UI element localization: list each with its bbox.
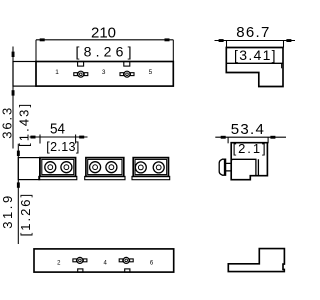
front view: left end section of strip	[13, 62, 36, 87]
front view: mounting slot above screw 2	[124, 62, 130, 67]
svg-text:36.3: 36.3	[0, 108, 15, 139]
svg-text:[1.26]: [1.26]	[18, 194, 33, 237]
dimension 36.3: top arrowhead	[12, 52, 15, 57]
dimension 31.9: vertical dimension line	[17, 144, 19, 244]
dimension 210: right arrowhead	[165, 38, 170, 41]
side view top-right: small step on right edge	[281, 63, 283, 68]
svg-text:[2.13]: [2.13]	[46, 140, 79, 154]
side view middle-right: foot/front face edges	[231, 159, 258, 175]
dimension 86.7: dimension line and extension lines	[215, 41, 296, 48]
bottom view: terminal screw S4	[119, 257, 133, 263]
front view: terminal screw S1	[74, 71, 88, 77]
dimension 210: left arrowhead	[40, 38, 45, 41]
side view middle-right: clamp screw head	[219, 159, 225, 175]
front view: terminal strip main body	[36, 62, 173, 87]
dimension 31.9: bottom arrowhead	[17, 182, 20, 187]
svg-text:31.9: 31.9	[0, 196, 15, 229]
top view: terminal block B3 with two clamp screws	[132, 158, 170, 180]
side view top-right: stepped end profile	[226, 48, 283, 87]
bottom view: mounting slot below screw 1	[78, 269, 83, 272]
dimension 86.7: right arrowhead	[286, 39, 291, 42]
dimension 86.7: left arrowhead	[219, 39, 224, 42]
dimension 54: dimension line and extension lines	[30, 135, 88, 144]
dimension 36.3: bottom arrowhead	[12, 90, 15, 95]
dimension 210: dimension line and extension lines	[36, 40, 173, 62]
svg-text:[1.43]: [1.43]	[17, 104, 32, 147]
svg-text:1: 1	[55, 69, 59, 76]
dimension 53.4: left arrowhead	[221, 136, 226, 139]
dimension 53.4: dimension line and extension lines	[215, 137, 286, 143]
svg-text:54: 54	[50, 121, 65, 138]
bottom view: terminal screw S3	[73, 257, 87, 263]
dimension 31.9: top arrowhead	[17, 151, 20, 156]
side profile bottom-right: stepped outline	[228, 249, 284, 272]
top view: left rail section	[18, 158, 39, 180]
front view: terminal screw S2	[120, 71, 134, 77]
side view middle-right: clamp screw shaft	[226, 163, 232, 171]
dimension 36.3: vertical dimension line	[12, 47, 14, 149]
svg-text:53.4: 53.4	[231, 121, 264, 138]
side view top-right: internal edge	[226, 62, 283, 64]
svg-text:5: 5	[149, 69, 153, 76]
svg-text:[3.41]: [3.41]	[234, 47, 275, 63]
dimension 54: right arrowhead	[79, 136, 84, 139]
svg-text:3: 3	[102, 69, 106, 76]
dimension 54: left arrowhead	[31, 136, 36, 139]
dimension 53.4: right arrowhead	[270, 136, 275, 139]
svg-text:[8.26]: [8.26]	[76, 44, 132, 60]
side view middle-right: screw head face line	[224, 159, 226, 175]
top view: terminal block B2 with two clamp screws	[85, 158, 125, 180]
svg-text:86.7: 86.7	[236, 24, 269, 41]
bottom view: mounting slot below screw 2	[125, 269, 130, 272]
side view middle-right: block body outline	[231, 143, 267, 180]
top view: terminal block B1 with two clamp screws	[39, 158, 77, 180]
svg-text:210: 210	[91, 24, 116, 41]
front view: mounting slot above screw 1	[78, 62, 84, 67]
bottom view: terminal strip body	[34, 249, 174, 272]
